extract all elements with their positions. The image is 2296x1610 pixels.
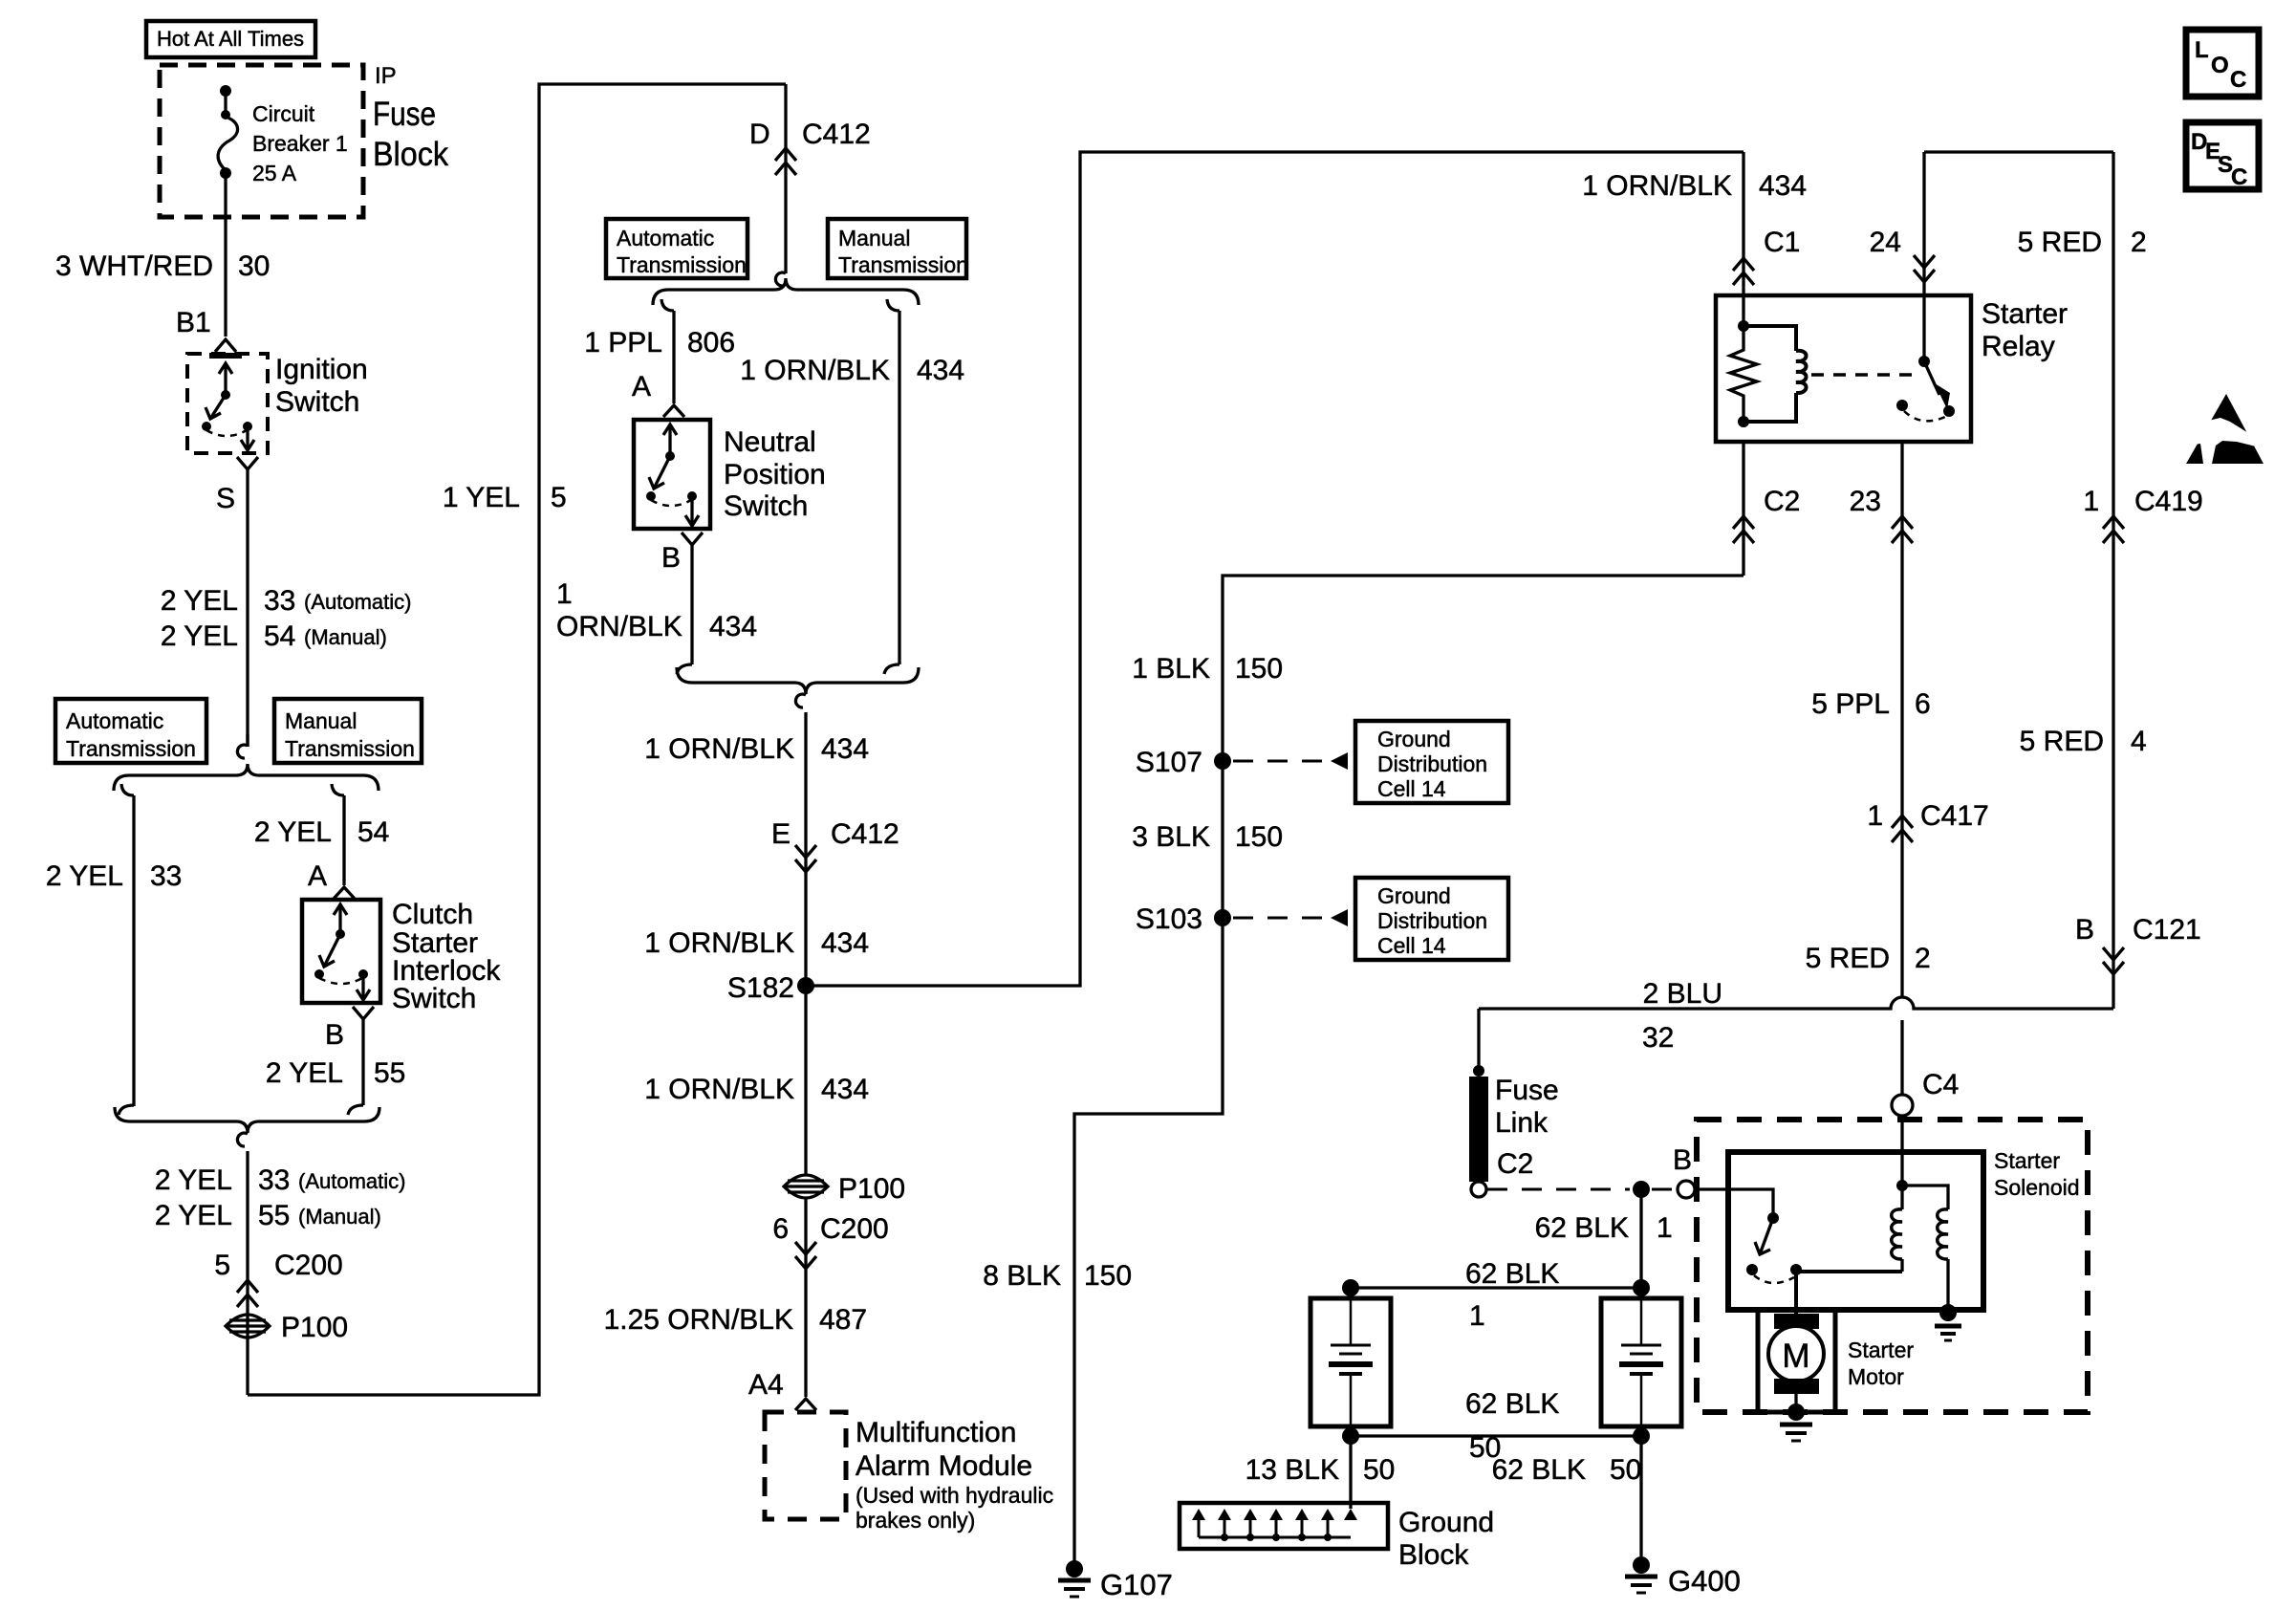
svg-text:4: 4: [2131, 726, 2147, 757]
svg-text:1: 1: [1867, 800, 1883, 832]
svg-text:62 BLK: 62 BLK: [1465, 1388, 1559, 1420]
svg-text:S182: S182: [727, 972, 794, 1004]
svg-text:C200: C200: [274, 1250, 343, 1281]
svg-text:M: M: [1782, 1338, 1809, 1375]
svg-text:P100: P100: [838, 1173, 905, 1205]
svg-text:Switch: Switch: [275, 386, 359, 418]
svg-text:(Manual): (Manual): [298, 1205, 381, 1229]
svg-text:434: 434: [1759, 170, 1807, 202]
svg-text:Distribution: Distribution: [1377, 908, 1487, 933]
svg-text:Alarm Module: Alarm Module: [856, 1450, 1032, 1482]
svg-text:C1: C1: [1764, 227, 1800, 258]
svg-text:D: D: [749, 119, 770, 150]
svg-text:8 BLK: 8 BLK: [983, 1260, 1061, 1292]
svg-text:150: 150: [1084, 1260, 1132, 1292]
svg-text:Fuse: Fuse: [373, 96, 436, 133]
svg-text:62 BLK: 62 BLK: [1535, 1212, 1629, 1244]
svg-text:Switch: Switch: [392, 983, 476, 1014]
svg-text:2: 2: [2131, 227, 2147, 258]
svg-text:1.25 ORN/BLK: 1.25 ORN/BLK: [604, 1304, 793, 1336]
svg-text:C: C: [2230, 67, 2246, 93]
svg-text:Cell 14: Cell 14: [1377, 933, 1446, 958]
svg-text:E: E: [771, 818, 791, 850]
svg-text:C417: C417: [1920, 800, 1989, 832]
svg-text:1 BLK: 1 BLK: [1132, 653, 1210, 685]
svg-text:Relay: Relay: [1982, 331, 2055, 362]
svg-text:brakes only): brakes only): [856, 1508, 975, 1533]
svg-text:2 YEL: 2 YEL: [254, 816, 332, 848]
svg-text:B: B: [325, 1019, 344, 1051]
svg-text:Transmission: Transmission: [617, 252, 747, 277]
svg-text:B: B: [2075, 914, 2094, 946]
svg-text:2 YEL: 2 YEL: [161, 585, 238, 617]
svg-text:33: 33: [150, 860, 182, 892]
svg-text:Position: Position: [724, 459, 826, 490]
svg-text:(Used with hydraulic: (Used with hydraulic: [856, 1483, 1053, 1508]
svg-text:C2: C2: [1764, 486, 1800, 517]
svg-text:50: 50: [1363, 1454, 1395, 1486]
svg-text:2 YEL: 2 YEL: [46, 860, 123, 892]
svg-text:(Automatic): (Automatic): [298, 1169, 405, 1193]
svg-text:Breaker 1: Breaker 1: [252, 131, 348, 156]
svg-text:C200: C200: [820, 1213, 889, 1245]
svg-text:S103: S103: [1136, 903, 1202, 935]
svg-text:B: B: [661, 542, 681, 574]
svg-text:Manual: Manual: [285, 708, 357, 733]
svg-text:806: 806: [687, 327, 735, 359]
svg-text:Starter: Starter: [1994, 1148, 2060, 1173]
svg-text:1: 1: [556, 578, 573, 610]
svg-text:ORN/BLK: ORN/BLK: [556, 611, 682, 642]
svg-text:2 BLU: 2 BLU: [1643, 978, 1722, 1010]
svg-text:Cell 14: Cell 14: [1377, 776, 1446, 801]
svg-text:L: L: [2195, 37, 2209, 63]
svg-text:Block: Block: [1398, 1539, 1469, 1571]
svg-text:62 BLK: 62 BLK: [1465, 1258, 1559, 1290]
svg-text:5 RED: 5 RED: [2020, 726, 2104, 757]
svg-text:25 A: 25 A: [252, 161, 297, 185]
svg-text:5 RED: 5 RED: [2018, 227, 2102, 258]
svg-text:2 YEL: 2 YEL: [161, 620, 238, 652]
svg-text:Circuit: Circuit: [252, 101, 315, 126]
svg-text:434: 434: [709, 611, 757, 642]
svg-text:62 BLK: 62 BLK: [1492, 1454, 1586, 1486]
svg-text:55: 55: [258, 1200, 290, 1231]
svg-text:2 YEL: 2 YEL: [155, 1164, 232, 1196]
svg-text:B: B: [1673, 1144, 1692, 1176]
svg-text:Automatic: Automatic: [617, 226, 714, 250]
svg-text:Automatic: Automatic: [66, 708, 163, 733]
svg-text:434: 434: [917, 355, 964, 386]
svg-text:Block: Block: [373, 136, 448, 173]
svg-text:23: 23: [1850, 486, 1881, 517]
svg-text:33: 33: [264, 585, 295, 617]
svg-text:434: 434: [821, 1074, 869, 1105]
svg-text:P100: P100: [281, 1312, 348, 1343]
svg-text:C121: C121: [2133, 914, 2201, 946]
svg-text:Ground: Ground: [1377, 727, 1451, 751]
svg-text:(Automatic): (Automatic): [304, 590, 411, 614]
svg-text:1 ORN/BLK: 1 ORN/BLK: [644, 733, 794, 765]
svg-text:IP: IP: [375, 63, 397, 89]
svg-text:(Manual): (Manual): [304, 625, 387, 649]
svg-text:A: A: [632, 371, 651, 402]
svg-text:5: 5: [214, 1250, 230, 1281]
svg-text:A: A: [308, 860, 327, 892]
svg-text:Starter: Starter: [1982, 298, 2068, 330]
svg-text:C: C: [2231, 164, 2247, 190]
svg-text:1 ORN/BLK: 1 ORN/BLK: [1582, 170, 1732, 202]
svg-text:Ground: Ground: [1377, 883, 1451, 908]
svg-text:2: 2: [1915, 943, 1931, 974]
svg-text:1 ORN/BLK: 1 ORN/BLK: [740, 355, 890, 386]
svg-text:C419: C419: [2134, 486, 2203, 517]
svg-text:Starter: Starter: [1848, 1338, 1914, 1362]
svg-text:Manual: Manual: [838, 226, 910, 250]
svg-text:54: 54: [264, 620, 295, 652]
svg-text:33: 33: [258, 1164, 290, 1196]
svg-text:G400: G400: [1668, 1564, 1741, 1598]
svg-text:3 BLK: 3 BLK: [1132, 821, 1210, 853]
svg-text:G107: G107: [1100, 1568, 1173, 1601]
svg-text:13 BLK: 13 BLK: [1245, 1454, 1339, 1486]
svg-text:Switch: Switch: [724, 490, 808, 522]
svg-text:Link: Link: [1495, 1107, 1549, 1139]
svg-text:5 PPL: 5 PPL: [1811, 688, 1890, 720]
svg-text:S107: S107: [1136, 747, 1202, 778]
svg-text:6: 6: [1915, 688, 1931, 720]
svg-text:O: O: [2211, 53, 2229, 78]
svg-text:1 YEL: 1 YEL: [443, 482, 520, 513]
svg-text:Neutral: Neutral: [724, 426, 816, 458]
svg-text:150: 150: [1235, 653, 1283, 685]
svg-text:434: 434: [821, 733, 869, 765]
svg-text:Fuse: Fuse: [1495, 1075, 1559, 1106]
svg-text:Transmission: Transmission: [285, 736, 415, 761]
svg-text:150: 150: [1235, 821, 1283, 853]
svg-text:1 PPL: 1 PPL: [584, 327, 662, 359]
svg-text:54: 54: [357, 816, 389, 848]
svg-text:Distribution: Distribution: [1377, 751, 1487, 776]
svg-text:5 RED: 5 RED: [1806, 943, 1890, 974]
svg-text:6: 6: [772, 1213, 789, 1245]
svg-text:30: 30: [238, 250, 270, 282]
svg-text:1: 1: [1657, 1212, 1673, 1244]
svg-text:2 YEL: 2 YEL: [155, 1200, 232, 1231]
svg-text:487: 487: [819, 1304, 867, 1336]
svg-text:5: 5: [551, 482, 567, 513]
svg-text:C2: C2: [1497, 1148, 1533, 1180]
svg-text:24: 24: [1870, 227, 1901, 258]
svg-text:32: 32: [1642, 1022, 1674, 1054]
svg-text:C412: C412: [802, 119, 871, 150]
svg-text:Hot At All Times: Hot At All Times: [157, 27, 304, 51]
svg-text:C412: C412: [831, 818, 899, 850]
svg-text:Multifunction: Multifunction: [856, 1417, 1016, 1448]
svg-text:50: 50: [1610, 1454, 1641, 1486]
svg-text:1: 1: [1469, 1300, 1485, 1332]
svg-text:Transmission: Transmission: [66, 736, 196, 761]
svg-text:2 YEL: 2 YEL: [266, 1057, 343, 1089]
svg-text:1: 1: [2083, 486, 2099, 517]
svg-text:434: 434: [821, 927, 869, 959]
svg-text:Solenoid: Solenoid: [1994, 1175, 2080, 1200]
svg-text:Ground: Ground: [1398, 1507, 1494, 1538]
svg-text:Transmission: Transmission: [838, 252, 968, 277]
svg-text:3 WHT/RED: 3 WHT/RED: [55, 250, 213, 282]
svg-text:Clutch: Clutch: [392, 899, 473, 930]
svg-text:Motor: Motor: [1848, 1364, 1904, 1389]
svg-text:1 ORN/BLK: 1 ORN/BLK: [644, 1074, 794, 1105]
svg-text:C4: C4: [1922, 1069, 1959, 1100]
svg-text:Ignition: Ignition: [275, 354, 368, 385]
svg-text:A4: A4: [748, 1369, 784, 1401]
svg-text:1 ORN/BLK: 1 ORN/BLK: [644, 927, 794, 959]
svg-text:B1: B1: [176, 307, 211, 338]
svg-text:55: 55: [374, 1057, 405, 1089]
svg-text:S: S: [216, 483, 235, 514]
